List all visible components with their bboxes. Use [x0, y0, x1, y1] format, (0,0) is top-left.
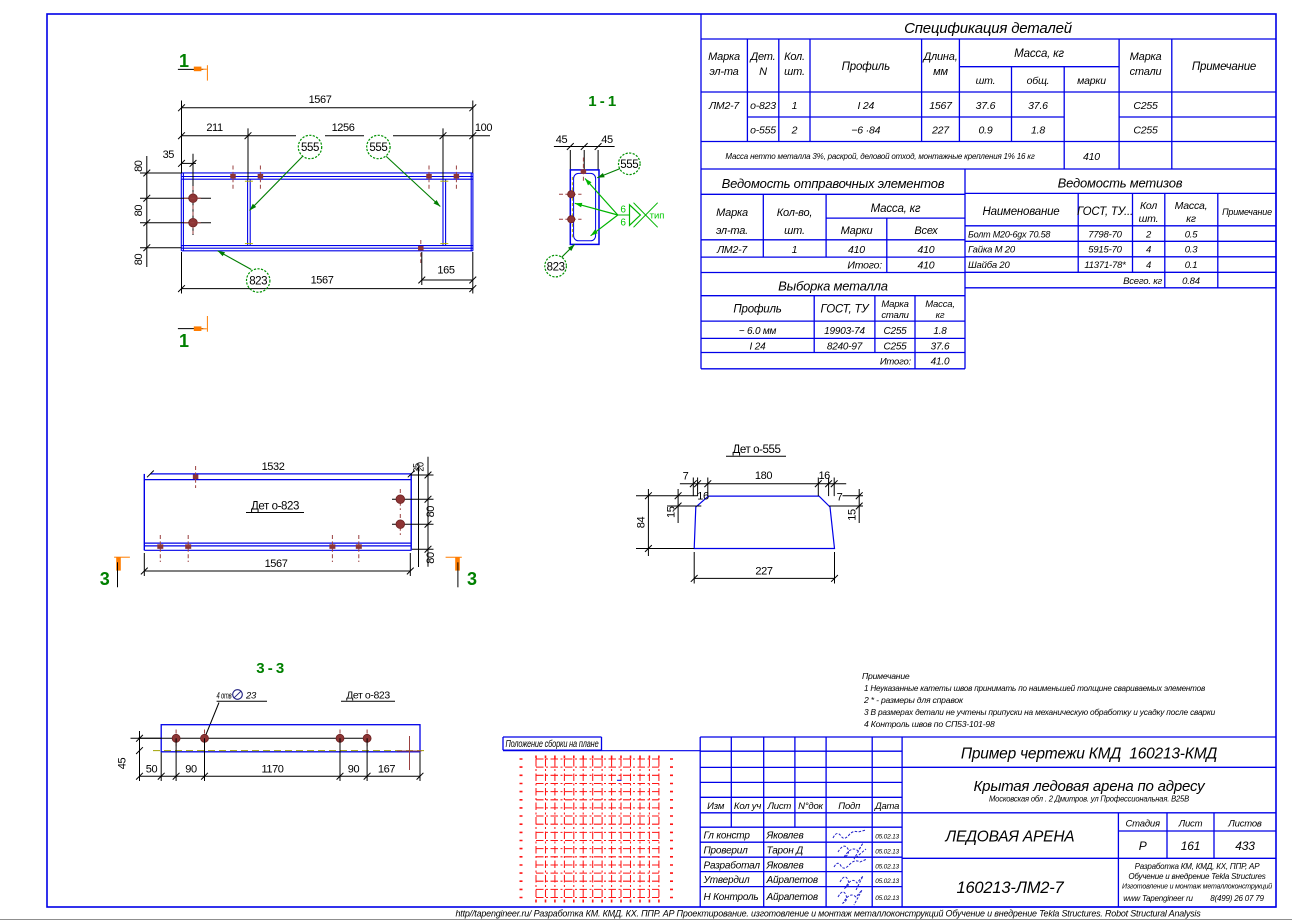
svg-text:410: 410: [1083, 151, 1100, 163]
svg-text:410: 410: [848, 244, 865, 256]
svg-text:15: 15: [846, 509, 858, 521]
svg-text:45: 45: [556, 134, 568, 146]
svg-text:Марка: Марка: [708, 51, 740, 63]
svg-text:227: 227: [931, 125, 950, 137]
svg-text:эл-та: эл-та: [709, 66, 738, 78]
svg-text:Гл констр: Гл констр: [704, 831, 751, 842]
svg-text:555: 555: [301, 142, 319, 154]
svg-text:Марки: Марки: [841, 225, 873, 237]
svg-text:ЛМ2-7: ЛМ2-7: [716, 244, 748, 256]
svg-text:5915-70: 5915-70: [1088, 245, 1122, 256]
svg-text:1: 1: [179, 51, 189, 71]
svg-text:3: 3: [100, 569, 110, 589]
svg-text:227: 227: [755, 566, 772, 578]
svg-text:1 Неуказанные катеты швов при: 1 Неуказанные катеты швов принимать по н…: [864, 683, 1206, 693]
svg-text:шт.: шт.: [784, 225, 805, 237]
svg-text:−6 ·84: −6 ·84: [851, 125, 880, 137]
svg-text:о-823: о-823: [750, 100, 776, 112]
svg-text:05.02.13: 05.02.13: [875, 834, 899, 841]
svg-text:8240-97: 8240-97: [827, 342, 863, 353]
svg-text:Р: Р: [1139, 839, 1147, 853]
svg-text:823: 823: [547, 261, 565, 273]
svg-text:1170: 1170: [261, 763, 283, 775]
svg-text:Кол-во,: Кол-во,: [777, 207, 813, 219]
svg-text:N: N: [759, 66, 767, 78]
svg-text:эл-та.: эл-та.: [716, 225, 748, 237]
svg-text:Гайка М 20: Гайка М 20: [968, 245, 1016, 256]
svg-text:160213-ЛМ2-7: 160213-ЛМ2-7: [956, 879, 1064, 897]
svg-text:11371-78*: 11371-78*: [1084, 260, 1126, 271]
svg-text:Положение сборки на плане: Положение сборки на плане: [506, 738, 599, 750]
svg-text:1532: 1532: [262, 461, 285, 473]
svg-text:Крытая ледовая арена по адресу: Крытая ледовая арена по адресу: [974, 778, 1207, 795]
svg-text:Разработка КМ, КМД, КХ, ППР, А: Разработка КМ, КМД, КХ, ППР, АР: [1135, 862, 1261, 871]
svg-text:555: 555: [620, 159, 638, 171]
svg-text:4 отв: 4 отв: [217, 691, 232, 702]
svg-text:Яковлев: Яковлев: [766, 831, 804, 842]
svg-text:Длина,: Длина,: [921, 51, 957, 63]
svg-text:1256: 1256: [332, 122, 355, 134]
svg-text:80: 80: [133, 254, 145, 266]
svg-text:Кол: Кол: [1140, 200, 1157, 212]
svg-text:7: 7: [837, 492, 843, 504]
svg-text:Ведомость отправочных элементо: Ведомость отправочных элементов: [722, 176, 945, 191]
svg-text:общ.: общ.: [1027, 75, 1050, 87]
svg-text:05.02.13: 05.02.13: [875, 863, 899, 870]
svg-text:Масса нетто металла 3%, раскро: Масса нетто металла 3%, раскрой, деловой…: [725, 152, 1034, 161]
svg-text:0.84: 0.84: [1182, 276, 1200, 287]
svg-text:1: 1: [179, 331, 189, 351]
svg-text:1: 1: [792, 100, 798, 112]
svg-text:Лист: Лист: [766, 801, 791, 812]
svg-text:167: 167: [378, 763, 395, 775]
svg-text:Айрапетов: Айрапетов: [766, 875, 818, 886]
svg-text:тип: тип: [650, 210, 665, 221]
svg-text:Болт М20-6gх 70.58: Болт М20-6gх 70.58: [968, 230, 1050, 240]
svg-text:37.6: 37.6: [931, 342, 950, 353]
svg-text:Масса, кг: Масса, кг: [871, 203, 921, 215]
svg-text:Подп: Подп: [838, 801, 861, 812]
svg-text:С255: С255: [883, 342, 907, 353]
svg-text:Марка: Марка: [881, 299, 908, 310]
svg-text:Примечание: Примечание: [1192, 61, 1256, 73]
svg-text:о-555: о-555: [750, 125, 776, 137]
svg-text:555: 555: [369, 142, 387, 154]
svg-text:823: 823: [249, 276, 267, 288]
svg-text:37.6: 37.6: [1028, 100, 1048, 112]
svg-text:80: 80: [425, 552, 437, 564]
svg-text:Пример чертежи КМД 160213-КМД: Пример чертежи КМД 160213-КМД: [961, 746, 1218, 763]
svg-text:1 - 1: 1 - 1: [588, 93, 616, 110]
svg-text:ГОСТ, ТУ...: ГОСТ, ТУ...: [1077, 206, 1133, 218]
svg-text:Н Контроль: Н Контроль: [704, 892, 759, 903]
svg-text:марки: марки: [1077, 75, 1106, 87]
svg-text:6: 6: [620, 217, 626, 228]
svg-text:16: 16: [697, 491, 709, 503]
svg-text:Дата: Дата: [874, 801, 899, 812]
svg-text:Тарон Д: Тарон Д: [767, 846, 804, 857]
svg-text:45: 45: [601, 134, 613, 146]
svg-text:90: 90: [348, 763, 360, 775]
svg-text:ЛЕДОВАЯ АРЕНА: ЛЕДОВАЯ АРЕНА: [945, 829, 1075, 846]
svg-text:Всех: Всех: [914, 225, 938, 237]
svg-text:16: 16: [818, 470, 830, 482]
svg-text:Спецификация деталей: Спецификация деталей: [904, 20, 1073, 37]
svg-text:Примечание: Примечание: [1222, 207, 1272, 217]
svg-text:05.02.13: 05.02.13: [875, 849, 899, 856]
svg-text:23: 23: [245, 691, 257, 702]
svg-text:мм: мм: [933, 66, 948, 78]
svg-text:41.0: 41.0: [931, 357, 950, 368]
svg-text:Масса,: Масса,: [925, 299, 955, 310]
svg-text:80: 80: [425, 506, 437, 518]
svg-text:1567: 1567: [311, 275, 334, 287]
svg-text:кг: кг: [1186, 213, 1196, 225]
svg-text:410: 410: [918, 244, 935, 256]
svg-text:1567: 1567: [265, 558, 288, 570]
svg-text:Обучение и внедрение Tekla St: Обучение и внедрение Tekla Structures: [1128, 872, 1265, 881]
svg-text:90: 90: [185, 763, 197, 775]
svg-text:2: 2: [791, 125, 798, 137]
svg-text:15: 15: [665, 506, 677, 518]
svg-text:50: 50: [146, 763, 158, 775]
svg-text:1567: 1567: [309, 94, 332, 106]
svg-text:Примечание: Примечание: [862, 671, 910, 681]
svg-text:84: 84: [636, 517, 648, 529]
svg-text:Профиль: Профиль: [733, 304, 781, 316]
svg-text:стали: стали: [1130, 66, 1162, 78]
svg-text:0.1: 0.1: [1185, 260, 1198, 271]
svg-text:2 * - размеры для справок: 2 * - размеры для справок: [863, 695, 964, 705]
svg-text:35: 35: [163, 149, 175, 161]
svg-text:3 - 3: 3 - 3: [256, 660, 284, 677]
svg-text:Итого:: Итого:: [847, 260, 882, 272]
svg-text:19903-74: 19903-74: [824, 326, 865, 337]
svg-text:Утвердил: Утвердил: [703, 875, 751, 886]
svg-text:05.02.13: 05.02.13: [875, 895, 899, 902]
svg-text:8(499) 26 07 79: 8(499) 26 07 79: [1210, 894, 1264, 903]
svg-text:Изм: Изм: [707, 801, 725, 812]
svg-text:7: 7: [683, 470, 689, 482]
svg-text:ГОСТ, ТУ: ГОСТ, ТУ: [821, 304, 871, 316]
svg-text:http//tapengineer.ru/ Разрабо: http//tapengineer.ru/ Разработка КМ. КМД…: [456, 909, 1201, 920]
svg-text:Выборка металла: Выборка металла: [778, 279, 888, 294]
svg-text:180: 180: [755, 470, 772, 482]
svg-text:Масса,: Масса,: [1175, 200, 1208, 212]
svg-text:N°док: N°док: [798, 801, 823, 812]
svg-text:I 24: I 24: [750, 342, 767, 353]
svg-text:4: 4: [1146, 260, 1151, 271]
svg-text:4: 4: [1146, 245, 1151, 256]
svg-text:Всего. кг: Всего. кг: [1123, 276, 1162, 287]
svg-text:www Tapengineer ru: www Tapengineer ru: [1123, 894, 1193, 903]
svg-text:100: 100: [475, 122, 492, 134]
svg-text:Московская обл . 2 Дмитров. у: Московская обл . 2 Дмитров. ул Профессио…: [989, 794, 1189, 804]
svg-text:Разработал: Разработал: [704, 859, 761, 871]
svg-text:Марка: Марка: [716, 207, 748, 219]
svg-text:4 Контроль швов по СП53-101-9: 4 Контроль швов по СП53-101-98: [864, 719, 995, 729]
svg-text:Марка: Марка: [1130, 51, 1162, 63]
svg-text:05.02.13: 05.02.13: [875, 878, 899, 885]
svg-text:45: 45: [117, 758, 129, 770]
svg-text:С255: С255: [1133, 100, 1158, 112]
svg-text:Шайба 20: Шайба 20: [968, 260, 1010, 271]
svg-text:3: 3: [467, 569, 477, 589]
svg-text:1.8: 1.8: [933, 326, 947, 337]
svg-text:7798-70: 7798-70: [1088, 230, 1122, 241]
svg-text:стали: стали: [881, 310, 909, 321]
svg-text:165: 165: [437, 265, 454, 277]
svg-text:Стадия: Стадия: [1126, 819, 1160, 830]
svg-text:С255: С255: [1133, 125, 1158, 137]
svg-text:Проверил: Проверил: [704, 846, 749, 857]
svg-text:80: 80: [133, 205, 145, 217]
svg-text:6: 6: [620, 205, 626, 216]
svg-text:Дет о-823: Дет о-823: [251, 501, 299, 513]
svg-text:Дет о-555: Дет о-555: [732, 444, 780, 456]
svg-text:I 24: I 24: [857, 100, 874, 112]
svg-text:шт.: шт.: [784, 66, 805, 78]
svg-text:кг: кг: [936, 310, 945, 321]
svg-text:− 6.0 мм: − 6.0 мм: [739, 326, 777, 337]
svg-text:Листов: Листов: [1227, 819, 1262, 830]
svg-text:Кол.: Кол.: [784, 51, 805, 63]
svg-text:1567: 1567: [929, 100, 953, 112]
svg-text:Дет о-823: Дет о-823: [346, 690, 390, 702]
svg-text:0.5: 0.5: [1185, 230, 1199, 241]
svg-text:1.8: 1.8: [1031, 125, 1045, 137]
svg-text:1: 1: [792, 244, 798, 256]
svg-text:2: 2: [1145, 230, 1152, 241]
svg-text:Лист: Лист: [1178, 819, 1203, 830]
svg-text:Ведомость метизов: Ведомость метизов: [1058, 176, 1183, 191]
svg-text:3 В размерах детали не учтены: 3 В размерах детали не учтены припуски н…: [864, 707, 1215, 717]
svg-text:0.3: 0.3: [1185, 245, 1199, 256]
svg-text:Наименование: Наименование: [983, 206, 1060, 218]
svg-text:0.9: 0.9: [979, 125, 993, 137]
svg-text:80: 80: [133, 160, 145, 172]
svg-text:Дет.: Дет.: [748, 51, 775, 63]
svg-text:Профиль: Профиль: [842, 61, 890, 73]
svg-text:Яковлев: Яковлев: [766, 860, 804, 871]
svg-text:211: 211: [206, 122, 223, 134]
svg-text:410: 410: [918, 260, 935, 272]
svg-text:Итого:: Итого:: [880, 357, 912, 368]
svg-text:Айрапетов: Айрапетов: [766, 892, 818, 903]
svg-text:Изготовление и монтаж металлок: Изготовление и монтаж металлоконструкций: [1122, 882, 1272, 891]
svg-text:161: 161: [1181, 839, 1200, 853]
svg-text:ЛМ2-7: ЛМ2-7: [708, 100, 740, 112]
svg-text:Масса, кг: Масса, кг: [1014, 48, 1064, 60]
svg-text:Кол уч: Кол уч: [734, 801, 761, 812]
svg-text:20: 20: [416, 462, 426, 472]
svg-text:шт.: шт.: [1139, 213, 1159, 225]
svg-text:шт.: шт.: [976, 75, 996, 87]
svg-text:433: 433: [1235, 839, 1255, 853]
svg-text:С255: С255: [883, 326, 907, 337]
svg-text:37.6: 37.6: [976, 100, 996, 112]
